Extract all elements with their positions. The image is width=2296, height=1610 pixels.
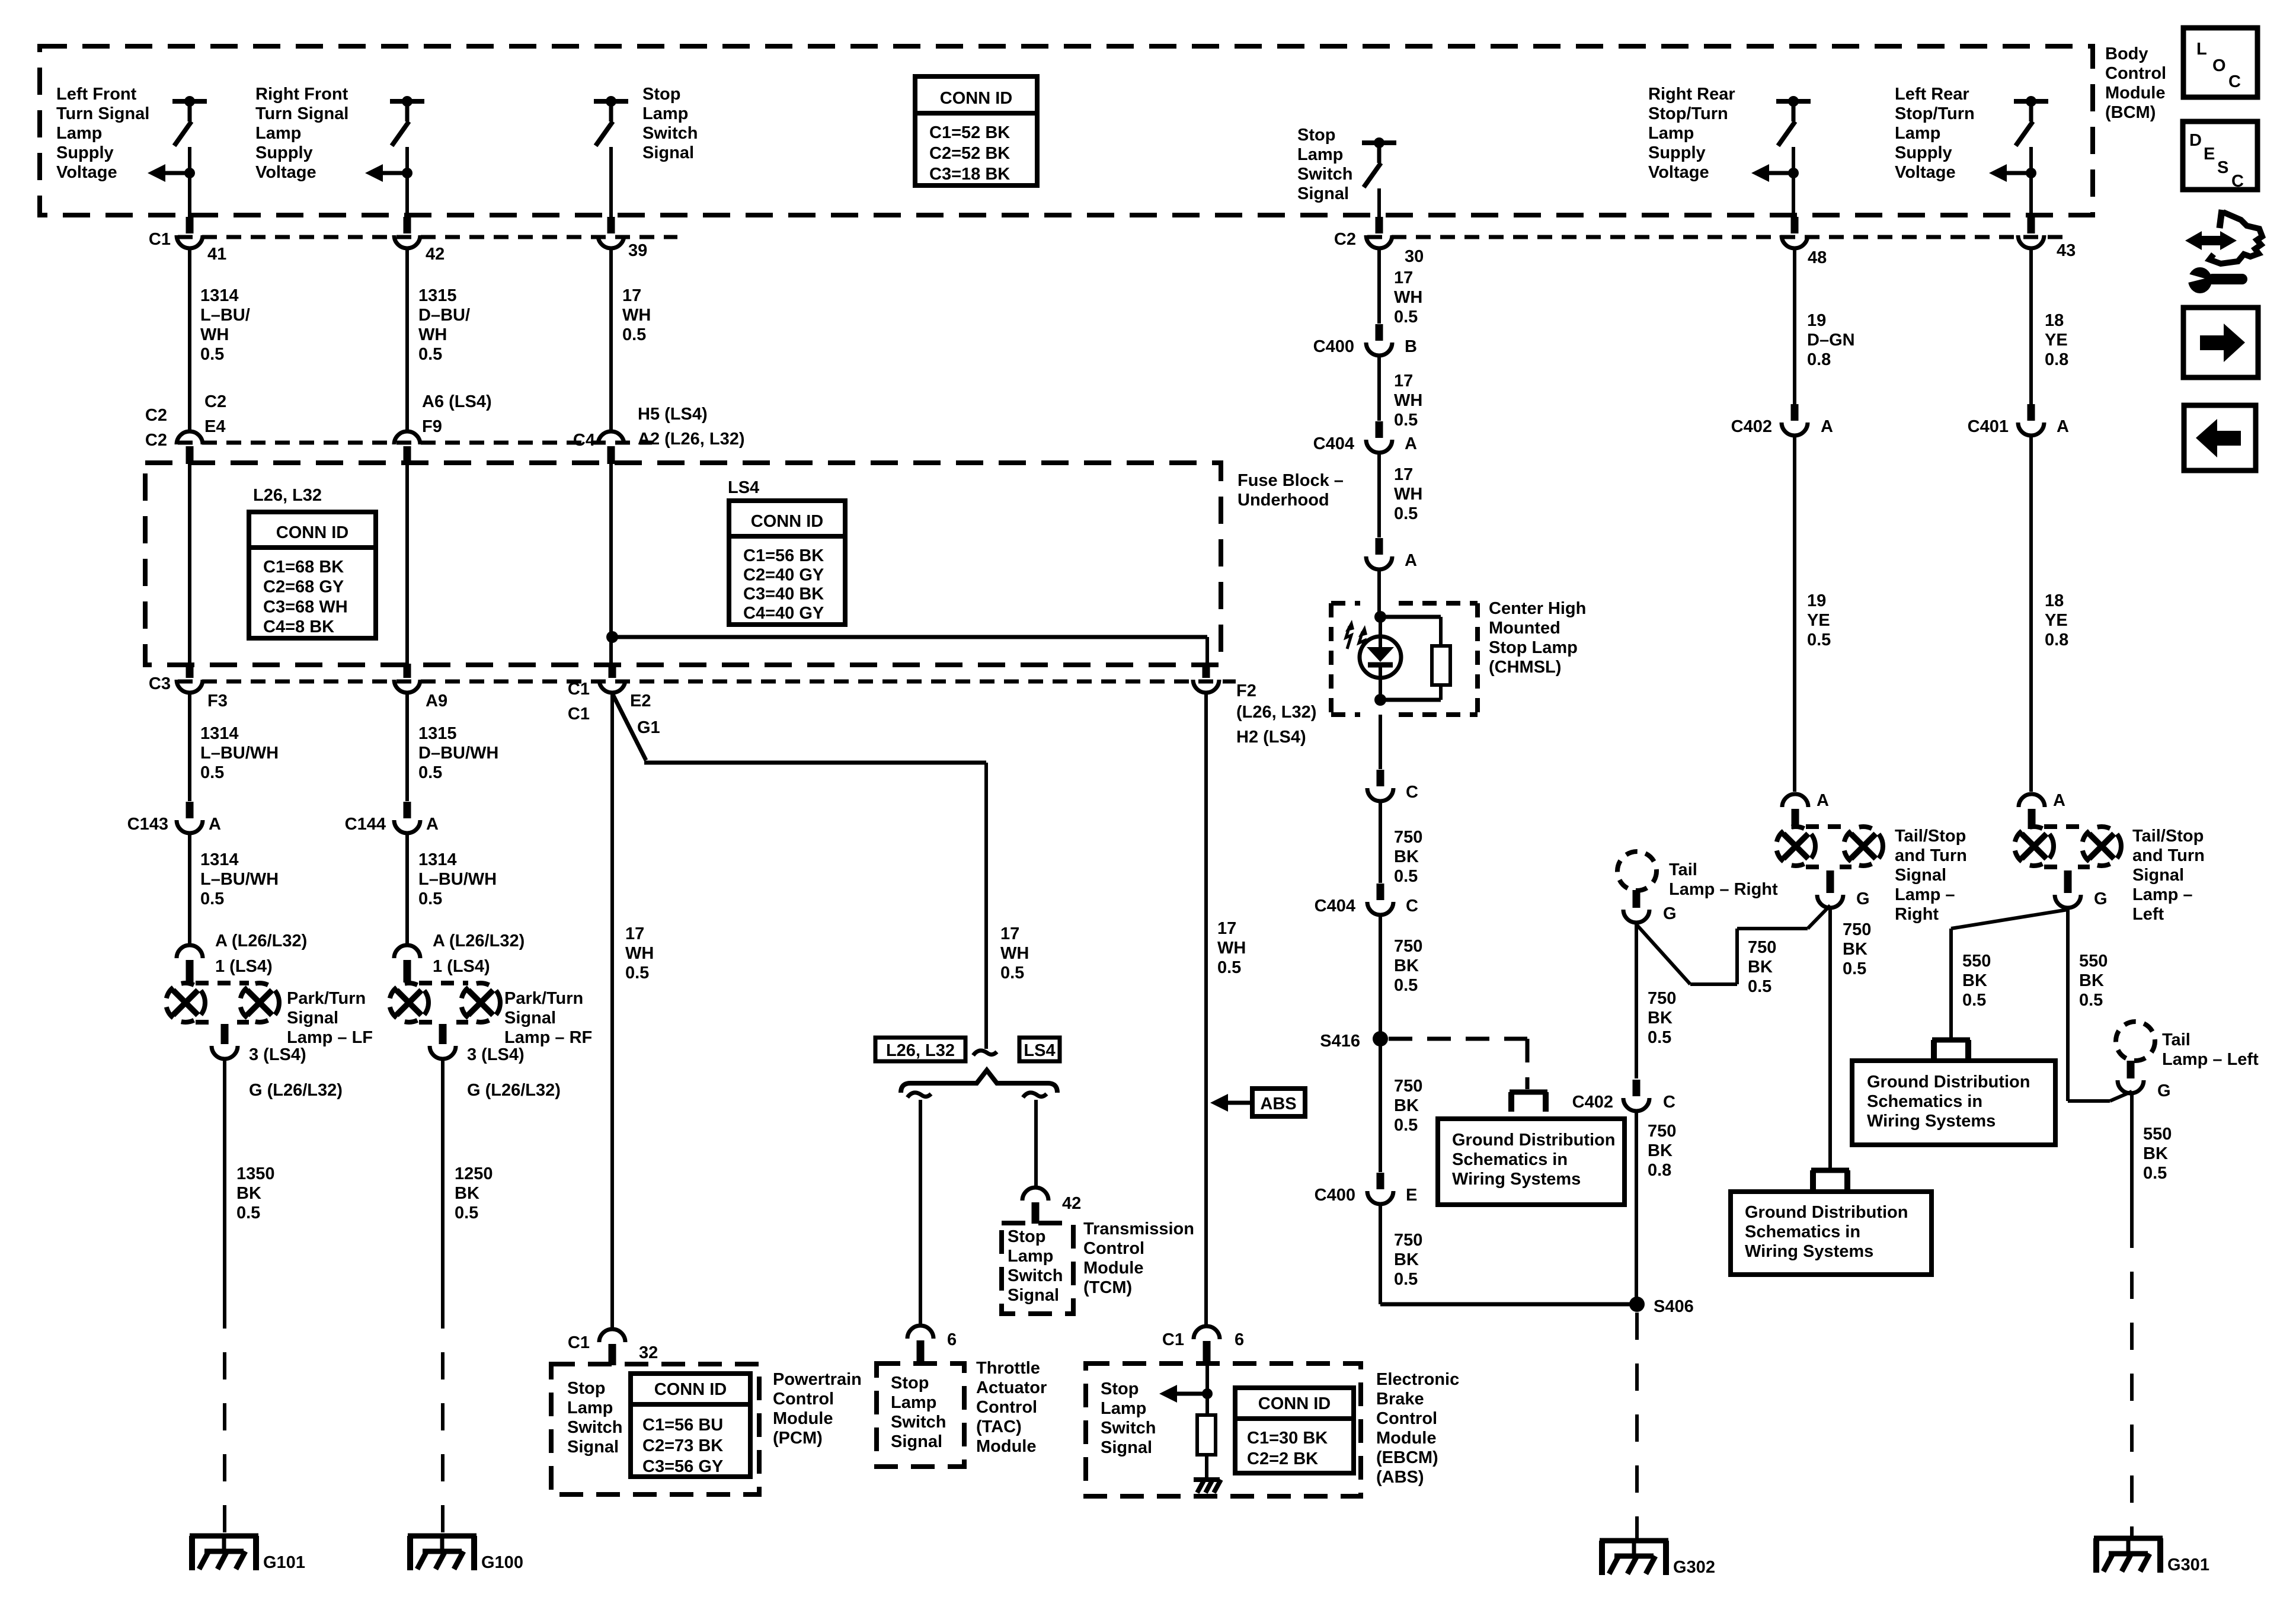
svg-text:Supply: Supply: [1895, 143, 1952, 162]
svg-text:0.5: 0.5: [418, 889, 442, 908]
label box Ground Distribution Schematics in Wiring Systems (A): [1438, 1119, 1625, 1205]
svg-text:C2=52 BK: C2=52 BK: [929, 144, 1010, 163]
svg-text:C2=40 GY: C2=40 GY: [743, 565, 824, 584]
svg-text:1314: 1314: [200, 724, 239, 743]
icon box LOC: [2183, 28, 2257, 97]
svg-text:1315: 1315: [418, 286, 457, 305]
svg-text:17: 17: [622, 286, 641, 305]
svg-text:YE: YE: [2045, 331, 2068, 350]
svg-text:BK: BK: [455, 1184, 479, 1203]
svg-text:L–BU/WH: L–BU/WH: [200, 870, 279, 889]
svg-text:C: C: [2231, 172, 2244, 191]
svg-text:BK: BK: [1394, 956, 1419, 975]
wire 550 BK to G301: [2130, 1095, 2134, 1221]
svg-text:Signal: Signal: [504, 1009, 556, 1028]
wire 1314 to C143: [188, 694, 191, 801]
svg-text:C144: C144: [345, 815, 386, 834]
connector C2 pin 48: [1782, 235, 1808, 248]
svg-text:H2 (LS4): H2 (LS4): [1236, 728, 1306, 747]
svg-text:O: O: [2212, 56, 2226, 75]
svg-text:Control: Control: [976, 1398, 1037, 1417]
svg-text:42: 42: [1062, 1194, 1081, 1213]
wire 1314 to LF lamp: [188, 835, 191, 943]
connector C402 pin C: [1623, 1098, 1649, 1111]
svg-text:WH: WH: [1394, 391, 1422, 410]
connector PCM C1 pin 32: [599, 1329, 625, 1342]
svg-text:S: S: [2217, 158, 2228, 177]
lamp: Tail Lamp - Left: [2116, 1022, 2155, 1061]
wire CHMSL to C connector: [1379, 715, 1382, 769]
svg-text:BK: BK: [1648, 1009, 1673, 1028]
svg-text:1314: 1314: [418, 850, 457, 869]
svg-text:Park/Turn: Park/Turn: [287, 989, 366, 1008]
wire circuit 1315 (RF): [405, 250, 409, 430]
svg-text:E: E: [1406, 1186, 1417, 1205]
label box LS4 (branch select): [1019, 1038, 1060, 1061]
svg-text:Control: Control: [773, 1390, 834, 1409]
svg-text:C4=8 BK: C4=8 BK: [263, 617, 334, 636]
svg-text:A: A: [1405, 434, 1417, 453]
svg-text:C404: C404: [1315, 897, 1355, 916]
wire C400-E to S406: [1379, 1206, 1382, 1304]
label box Ground Distribution Schematics in Wiring Systems (C): [1852, 1061, 2055, 1145]
connector C404 pin A: [1366, 440, 1392, 453]
svg-text:0.5: 0.5: [622, 325, 646, 344]
svg-text:C401: C401: [1968, 417, 2009, 436]
svg-text:Stop: Stop: [567, 1379, 605, 1398]
svg-text:S416: S416: [1320, 1032, 1360, 1051]
svg-text:32: 32: [639, 1343, 658, 1362]
svg-text:Signal: Signal: [1101, 1438, 1152, 1457]
svg-text:BK: BK: [2079, 971, 2104, 990]
svg-text:0.5: 0.5: [455, 1204, 478, 1222]
svg-text:C: C: [1406, 783, 1418, 802]
svg-text:BK: BK: [236, 1184, 261, 1203]
svg-text:D–BU/: D–BU/: [418, 306, 470, 325]
svg-text:Module: Module: [2105, 84, 2166, 103]
svg-text:0.5: 0.5: [1394, 504, 1418, 523]
svg-text:Stop: Stop: [1101, 1379, 1139, 1398]
svg-text:C2: C2: [204, 392, 226, 411]
svg-text:WH: WH: [200, 325, 229, 344]
svg-text:Left Front: Left Front: [56, 85, 137, 104]
connector C402 pin A: [1782, 422, 1808, 436]
svg-text:C3: C3: [149, 674, 171, 693]
svg-text:Schematics in: Schematics in: [1745, 1222, 1860, 1241]
bracket to ground distribution box B: [1811, 1168, 1849, 1173]
svg-text:Module: Module: [1376, 1429, 1437, 1448]
svg-text:1315: 1315: [418, 724, 457, 743]
wire circuit 17 (stop lamp signal): [609, 250, 613, 430]
svg-text:Tail: Tail: [2162, 1030, 2191, 1049]
dashed wire S406 to G302: [1635, 1313, 1639, 1541]
svg-text:Lamp: Lamp: [1101, 1399, 1146, 1418]
svg-text:CONN ID: CONN ID: [276, 523, 348, 542]
svg-text:0.5: 0.5: [418, 345, 442, 364]
svg-text:Control: Control: [2105, 64, 2166, 83]
svg-text:Turn Signal: Turn Signal: [56, 104, 149, 123]
connector C143 pin A: [177, 820, 203, 833]
svg-text:550: 550: [2079, 952, 2108, 971]
svg-text:Lamp: Lamp: [56, 124, 102, 143]
svg-text:E: E: [2204, 145, 2215, 164]
svg-text:H5 (LS4): H5 (LS4): [638, 405, 708, 424]
svg-text:Voltage: Voltage: [56, 163, 117, 182]
wire circuit 1314 (LF): [188, 250, 191, 430]
svg-text:Supply: Supply: [255, 143, 313, 162]
connector C1 pin 39: [598, 235, 624, 248]
svg-text:Switch: Switch: [642, 124, 698, 143]
wire 17 WH to EBCM: [1204, 694, 1208, 1324]
bracket to ground distribution box A: [1510, 1090, 1547, 1095]
svg-text:C402: C402: [1572, 1093, 1613, 1112]
svg-text:C3=68 WH: C3=68 WH: [263, 597, 348, 616]
svg-text:C3=40 BK: C3=40 BK: [743, 585, 824, 604]
connector pin C (inline): [1367, 788, 1393, 801]
module box: TAC stop lamp switch signal input: [877, 1363, 964, 1467]
svg-text:LS4: LS4: [728, 478, 759, 497]
svg-text:0.8: 0.8: [2045, 350, 2068, 369]
wire 1350 BK to G101: [223, 1061, 226, 1301]
wire tail lamp right to C402-C: [1635, 924, 1638, 1078]
svg-text:18: 18: [2045, 591, 2064, 610]
svg-text:C404: C404: [1313, 434, 1354, 453]
svg-text:G: G: [1663, 904, 1677, 923]
svg-text:Tail: Tail: [1669, 860, 1697, 879]
ground G302: [1600, 1538, 1668, 1544]
svg-text:A: A: [2057, 417, 2069, 436]
wire C402-C to S406: [1635, 1113, 1638, 1304]
svg-text:Center High: Center High: [1489, 599, 1586, 618]
svg-text:750: 750: [1394, 1231, 1422, 1250]
connector table CONN ID (L26,L32): C1=68 BK etc: [249, 512, 376, 638]
lamp: Park/Turn Signal Lamp - LF: [166, 983, 205, 1022]
svg-text:BK: BK: [1843, 940, 1868, 959]
svg-text:0.5: 0.5: [236, 1204, 260, 1222]
connector RF lamp pin 3/G: [430, 1046, 456, 1059]
svg-text:CONN ID: CONN ID: [1258, 1394, 1331, 1413]
connector table CONN ID (PCM): C1=56 BU, C2=73 BK, C3=56 GY: [631, 1374, 750, 1477]
ground G101: [190, 1534, 258, 1539]
wire C404 to splice A: [1377, 454, 1381, 537]
svg-text:0.5: 0.5: [1217, 958, 1241, 977]
resistor EBCM internal: [1197, 1415, 1216, 1455]
svg-text:(EBCM): (EBCM): [1376, 1448, 1438, 1467]
svg-text:C1: C1: [568, 705, 590, 724]
svg-text:550: 550: [2143, 1125, 2172, 1144]
wire diagonal E2/G1 branch: [612, 693, 646, 760]
lamp: Tail/Stop and Turn Signal Lamp - Left: [2014, 827, 2054, 866]
connector tail lamp left pin G: [2118, 1080, 2144, 1093]
connector C1 pin E2/G1: [599, 680, 625, 693]
splice hook above brace: [973, 1051, 997, 1055]
svg-text:G (L26/L32): G (L26/L32): [249, 1081, 343, 1100]
wire left lamp ground to tail lamp left G: [2066, 910, 2070, 1101]
switch: Stop Lamp Switch Signal (left): [594, 99, 628, 104]
svg-text:42: 42: [426, 245, 445, 264]
svg-text:Left: Left: [2132, 905, 2164, 924]
svg-text:C2=2 BK: C2=2 BK: [1247, 1449, 1318, 1468]
svg-text:WH: WH: [1394, 288, 1422, 307]
svg-text:Signal: Signal: [567, 1438, 619, 1457]
svg-text:Signal: Signal: [1297, 184, 1349, 203]
svg-text:Voltage: Voltage: [255, 163, 316, 182]
svg-text:C1=52 BK: C1=52 BK: [929, 123, 1010, 142]
wire 1250 BK to G100: [441, 1061, 445, 1301]
svg-text:G100: G100: [481, 1553, 523, 1572]
connector C401 pin A: [2018, 422, 2044, 436]
svg-text:Lamp: Lamp: [891, 1393, 936, 1412]
splice hook left branch: [907, 1093, 931, 1097]
connector left tail/stop lamp pin G: [2055, 895, 2081, 908]
svg-text:F2: F2: [1236, 681, 1256, 700]
svg-text:C1=56 BK: C1=56 BK: [743, 546, 824, 565]
svg-text:A: A: [2053, 791, 2065, 810]
connector line C1 (dotted): [178, 235, 677, 239]
connector LF lamp pin 1: [177, 945, 203, 958]
svg-text:C1=68 BK: C1=68 BK: [263, 558, 344, 577]
svg-text:0.5: 0.5: [2143, 1164, 2167, 1183]
svg-text:0.5: 0.5: [1394, 1116, 1418, 1135]
wire circuit 19 D-GN from BCM 48: [1793, 250, 1796, 411]
svg-text:Fuse Block –: Fuse Block –: [1237, 471, 1344, 490]
connector left tail/stop lamp pin A: [2019, 794, 2045, 807]
svg-text:Switch: Switch: [1008, 1266, 1063, 1285]
svg-text:0.5: 0.5: [200, 889, 224, 908]
svg-text:Control: Control: [1376, 1409, 1437, 1428]
svg-text:750: 750: [1394, 828, 1422, 847]
svg-text:C1: C1: [568, 1333, 590, 1352]
svg-text:Lamp: Lamp: [1297, 145, 1343, 164]
svg-text:Voltage: Voltage: [1648, 163, 1709, 182]
svg-text:750: 750: [1394, 937, 1422, 956]
svg-text:750: 750: [1648, 989, 1676, 1008]
lamp: Park/Turn Signal Lamp - RF: [389, 983, 428, 1022]
svg-text:G1: G1: [637, 718, 660, 737]
connector C2 pin 43: [2018, 235, 2044, 248]
svg-text:Signal: Signal: [1008, 1286, 1059, 1305]
svg-text:BK: BK: [2143, 1144, 2168, 1163]
svg-text:30: 30: [1405, 247, 1424, 266]
switch: Stop Lamp Switch Signal (right / CHMSL feed): [1362, 140, 1396, 145]
wire C402-A to right tail/stop lamp: [1793, 437, 1796, 792]
svg-text:0.5: 0.5: [625, 964, 649, 982]
svg-text:(TCM): (TCM): [1083, 1278, 1132, 1297]
svg-text:A: A: [1817, 791, 1829, 810]
svg-text:and Turn: and Turn: [2132, 846, 2205, 865]
label box Ground Distribution Schematics in Wiring Systems (B): [1731, 1192, 1932, 1275]
svg-text:A (L26/L32): A (L26/L32): [433, 932, 525, 950]
svg-text:0.5: 0.5: [200, 763, 224, 782]
svg-text:Ground Distribution: Ground Distribution: [1867, 1073, 2030, 1092]
svg-text:19: 19: [1807, 311, 1826, 330]
svg-text:1350: 1350: [236, 1164, 275, 1183]
svg-text:Signal: Signal: [891, 1432, 942, 1451]
svg-text:C1=30 BK: C1=30 BK: [1247, 1429, 1328, 1448]
svg-text:ABS: ABS: [1260, 1094, 1296, 1113]
svg-text:C2: C2: [145, 431, 167, 450]
svg-text:Throttle: Throttle: [976, 1359, 1040, 1378]
svg-text:Lamp – LF: Lamp – LF: [287, 1028, 373, 1047]
svg-text:C2=68 GY: C2=68 GY: [263, 578, 344, 597]
wire stop lamp to C400: [1377, 250, 1381, 324]
svg-text:1 (LS4): 1 (LS4): [433, 957, 490, 976]
svg-text:Ground Distribution: Ground Distribution: [1745, 1203, 1908, 1222]
svg-text:750: 750: [1394, 1077, 1422, 1096]
svg-text:Actuator: Actuator: [976, 1378, 1047, 1397]
svg-text:17: 17: [1217, 919, 1236, 938]
connector E4 (fuse block): [177, 431, 203, 444]
connector pin A (inline): [1366, 556, 1392, 569]
wire LS4 branch to TCM: [1034, 1100, 1038, 1186]
svg-text:0.5: 0.5: [418, 763, 442, 782]
icon box arrow left: [2184, 405, 2256, 470]
junction at fuse block (stop lamp branch): [606, 631, 618, 643]
wire C404 to S416: [1379, 917, 1382, 1039]
svg-text:Control: Control: [1083, 1239, 1144, 1258]
wire to CHMSL: [1377, 571, 1381, 617]
svg-text:A (L26/L32): A (L26/L32): [215, 932, 307, 950]
svg-text:1 (LS4): 1 (LS4): [215, 957, 273, 976]
svg-text:Signal: Signal: [2132, 866, 2184, 885]
svg-text:Lamp: Lamp: [255, 124, 301, 143]
svg-text:(TAC): (TAC): [976, 1417, 1022, 1436]
svg-text:Right: Right: [1895, 905, 1939, 924]
svg-text:Schematics in: Schematics in: [1452, 1150, 1568, 1169]
svg-text:Signal: Signal: [287, 1009, 338, 1028]
connector table CONN ID (LS4): C1=56 BK etc: [729, 501, 845, 625]
svg-text:Lamp – Right: Lamp – Right: [1669, 880, 1778, 899]
svg-text:(L26, L32): (L26, L32): [1236, 703, 1316, 722]
svg-text:Stop: Stop: [891, 1374, 929, 1393]
svg-text:C1: C1: [1162, 1330, 1184, 1349]
svg-text:3 (LS4): 3 (LS4): [467, 1045, 525, 1064]
svg-text:750: 750: [1843, 920, 1871, 939]
connector H5/A2 (fuse block): [598, 431, 624, 444]
svg-text:17: 17: [1394, 268, 1413, 287]
dashed branch S416 to ground distribution: [1389, 1037, 1527, 1041]
svg-text:17: 17: [1394, 465, 1413, 484]
svg-text:1250: 1250: [455, 1164, 493, 1183]
connector table CONN ID (BCM): C1=52 BK, C2=52 BK, C3=18 BK: [915, 76, 1037, 185]
svg-text:Ground Distribution: Ground Distribution: [1452, 1131, 1615, 1150]
svg-text:Module: Module: [1083, 1259, 1144, 1278]
connector tail lamp right pin G: [1623, 910, 1649, 923]
svg-text:43: 43: [2057, 241, 2076, 260]
svg-text:C402: C402: [1731, 417, 1772, 436]
svg-text:C3=56 GY: C3=56 GY: [642, 1457, 723, 1476]
svg-text:A6 (LS4): A6 (LS4): [422, 392, 492, 411]
svg-text:0.5: 0.5: [1000, 964, 1024, 982]
connector table CONN ID (EBCM): C1=30 BK, C2=2 BK: [1235, 1388, 1354, 1473]
svg-text:YE: YE: [2045, 611, 2068, 630]
svg-text:S406: S406: [1654, 1297, 1694, 1316]
svg-text:CONN ID: CONN ID: [654, 1380, 727, 1399]
svg-text:A9: A9: [426, 692, 447, 710]
LED lamp CHMSL: [1360, 636, 1401, 678]
connector C400 pin E: [1367, 1191, 1393, 1204]
wire tail lamp right ground jog: [1636, 924, 1690, 984]
svg-text:C400: C400: [1315, 1186, 1355, 1205]
svg-text:Transmission: Transmission: [1083, 1219, 1194, 1238]
svg-text:C400: C400: [1313, 337, 1354, 356]
svg-text:C: C: [1663, 1093, 1675, 1112]
svg-text:0.5: 0.5: [1843, 959, 1866, 978]
svg-text:Underhood: Underhood: [1237, 491, 1329, 510]
svg-text:C2=73 BK: C2=73 BK: [642, 1436, 723, 1455]
svg-text:Lamp – Left: Lamp – Left: [2162, 1050, 2259, 1069]
svg-text:0.5: 0.5: [1394, 1270, 1418, 1289]
svg-text:Wiring Systems: Wiring Systems: [1745, 1242, 1873, 1261]
svg-text:BK: BK: [1748, 958, 1773, 977]
svg-text:750: 750: [1748, 938, 1776, 957]
svg-text:WH: WH: [625, 944, 654, 963]
connector C3 pin F3: [177, 680, 203, 693]
lamp: Tail Lamp - Right: [1617, 852, 1657, 891]
svg-text:750: 750: [1648, 1122, 1676, 1141]
svg-text:0.5: 0.5: [1394, 411, 1418, 430]
module box: Fuse Block - Underhood: [145, 463, 1221, 665]
svg-text:D–GN: D–GN: [1807, 331, 1855, 350]
connector line E4/F9 (dotted): [178, 441, 652, 445]
svg-text:Signal: Signal: [1895, 866, 1946, 885]
svg-text:D: D: [2189, 131, 2202, 150]
svg-text:1314: 1314: [200, 850, 239, 869]
svg-text:CONN ID: CONN ID: [751, 512, 823, 531]
svg-text:0.5: 0.5: [200, 345, 224, 364]
svg-text:L–BU/WH: L–BU/WH: [418, 870, 497, 889]
label box L26, L32 (branch select): [875, 1038, 965, 1061]
wire circuit 18 YE from BCM 43: [2029, 250, 2033, 411]
svg-text:Stop: Stop: [1297, 126, 1335, 145]
junction CHMSL bottom: [1374, 694, 1386, 706]
module box: Electronic Brake Control Module (EBCM): [1086, 1363, 1361, 1496]
svg-text:Lamp: Lamp: [1895, 124, 1940, 143]
svg-text:A: A: [1821, 417, 1833, 436]
connector right tail/stop lamp pin A: [1782, 794, 1808, 807]
module box: Center High Mounted Stop Lamp (CHMSL): [1331, 601, 1360, 606]
connector C400 pin B: [1366, 343, 1392, 356]
connector TAC pin 6: [907, 1326, 933, 1339]
svg-text:F3: F3: [207, 692, 228, 710]
svg-text:Stop: Stop: [642, 85, 680, 104]
icon box arrow right: [2183, 308, 2258, 377]
connector C2 pin 30: [1366, 235, 1392, 248]
svg-text:Switch: Switch: [567, 1418, 622, 1437]
svg-text:F9: F9: [422, 417, 442, 436]
svg-text:YE: YE: [1807, 611, 1830, 630]
svg-text:Voltage: Voltage: [1895, 163, 1956, 182]
connector C144 pin A: [394, 820, 420, 833]
bracket to ground distribution box C: [1932, 1038, 1970, 1043]
svg-text:BK: BK: [1648, 1141, 1673, 1160]
connector C3 pin A9: [394, 680, 420, 693]
svg-text:41: 41: [207, 245, 226, 264]
svg-text:Brake: Brake: [1376, 1390, 1424, 1409]
module box: Powertrain Control Module (PCM): [551, 1364, 759, 1494]
svg-text:C: C: [1406, 897, 1418, 916]
svg-text:WH: WH: [1217, 939, 1246, 958]
wire stop lamp signal inside fuse block: [609, 463, 613, 665]
svg-text:Lamp –: Lamp –: [1895, 885, 1955, 904]
svg-text:WH: WH: [418, 325, 447, 344]
svg-text:Wiring Systems: Wiring Systems: [1452, 1170, 1581, 1189]
connector right tail/stop lamp pin G: [1817, 895, 1843, 908]
svg-text:(BCM): (BCM): [2105, 103, 2156, 122]
connector line C3 outputs (dotted): [178, 680, 1236, 684]
splice hook right branch: [1023, 1093, 1047, 1097]
svg-text:C4=40 GY: C4=40 GY: [743, 604, 824, 623]
